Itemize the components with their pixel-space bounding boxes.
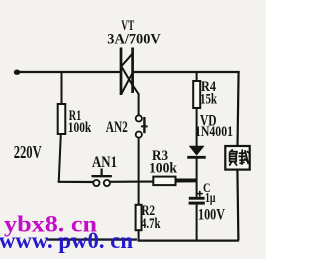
- wire load to bottom rail: [237, 170, 238, 241]
- svg-text:3A/700V: 3A/700V: [107, 31, 161, 47]
- svg-text:4.7k: 4.7k: [141, 216, 161, 232]
- svg-text:AN1: AN1: [92, 154, 117, 171]
- pushbutton AN1 bridge bar: [92, 175, 112, 177]
- wire bottom rail: [138, 240, 239, 242]
- wire R1 down to AN1 corner: [59, 134, 61, 183]
- resistor R3 body: [153, 177, 175, 186]
- svg-text:15k: 15k: [200, 92, 217, 108]
- wire R4 to diode VD: [196, 108, 198, 146]
- svg-text:1μ: 1μ: [205, 191, 216, 206]
- wire top rail left segment: [16, 71, 121, 73]
- pushbutton AN1 stem: [100, 169, 102, 177]
- wire bottom-left horizontal to AN1: [58, 181, 94, 183]
- wire AN1 to middle column and R3 wire: [110, 180, 197, 183]
- diode VD triangle: [189, 146, 205, 156]
- capacitor C bottom plate: [189, 202, 205, 205]
- pushbutton AN2 top contact: [136, 115, 142, 121]
- svg-text:www. pw0. cn: www. pw0. cn: [0, 228, 133, 253]
- wire left branch down to R1: [61, 71, 63, 105]
- node left input terminal dot: [14, 70, 20, 75]
- svg-text:100k: 100k: [149, 161, 178, 177]
- svg-text:AN2: AN2: [106, 119, 128, 136]
- wire VD to capacitor C: [196, 159, 198, 197]
- pushbutton AN2 stem: [141, 125, 148, 127]
- resistor R4 body: [193, 81, 200, 108]
- capacitor C top plate: [189, 197, 205, 200]
- pushbutton AN2 bottom contact: [136, 132, 142, 138]
- resistor R1 body: [58, 104, 66, 134]
- resistor R2 body: [136, 205, 142, 230]
- wire R4 branch from top rail: [196, 71, 198, 82]
- wire right branch from top rail down to load: [238, 71, 239, 147]
- svg-text:220V: 220V: [14, 142, 42, 162]
- load box outline: [225, 146, 249, 170]
- triac VT gate lead: [133, 86, 139, 116]
- wire AN2 down through junction to R2: [138, 138, 140, 205]
- wire R2 to bottom rail: [138, 230, 140, 240]
- svg-text:100k: 100k: [68, 120, 92, 136]
- pushbutton AN1 left contact: [93, 180, 99, 186]
- wire thick scan segment R3 to right column: [176, 179, 197, 182]
- capacitor C polarity plus horizontal: [197, 193, 203, 195]
- pushbutton AN2 bridge bar: [143, 117, 145, 133]
- load label character zai: [238, 149, 249, 164]
- svg-text:100V: 100V: [198, 207, 226, 224]
- triac VT middle diagonal: [121, 66, 133, 86]
- pushbutton AN1 right contact: [104, 180, 110, 186]
- svg-text:1N4001: 1N4001: [195, 124, 233, 140]
- triac VT lower triangle hypotenuse: [121, 73, 132, 94]
- watermark underline: [47, 238, 137, 240]
- wire top rail right segment: [133, 71, 240, 73]
- capacitor C polarity plus vertical: [199, 191, 201, 197]
- triac VT right main-terminal bar: [131, 48, 134, 94]
- diode VD cathode bar: [187, 156, 206, 159]
- wire C to bottom rail: [196, 205, 198, 241]
- triac VT upper triangle hypotenuse: [121, 54, 132, 67]
- triac VT left main-terminal bar: [120, 48, 123, 96]
- load label character fu: [229, 149, 237, 165]
